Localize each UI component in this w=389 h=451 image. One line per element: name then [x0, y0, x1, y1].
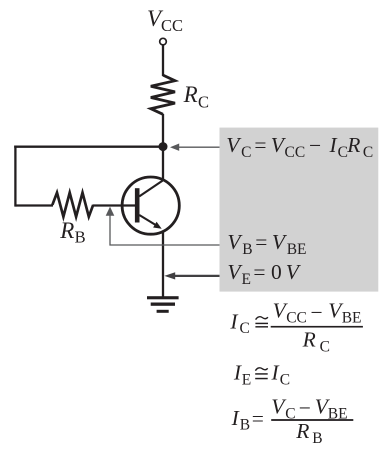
- transistor Q1: [122, 177, 179, 234]
- svg-text:CC: CC: [161, 16, 183, 35]
- node collector junction: [159, 142, 168, 151]
- svg-text:I: I: [329, 133, 338, 157]
- wire left to RB: [15, 204, 53, 206]
- svg-text:B: B: [75, 228, 86, 247]
- svg-text:BE: BE: [342, 310, 362, 327]
- equation VB = VBE: [227, 230, 306, 258]
- annotation arrow VB: [106, 207, 220, 245]
- resistor RC: [151, 75, 175, 114]
- svg-text:B: B: [242, 241, 252, 258]
- wire VCC terminal to RC: [162, 45, 164, 76]
- svg-text:B: B: [312, 430, 322, 447]
- resistor RB: [52, 193, 93, 217]
- equation IC approx (VCC-VBE)/RC: [229, 299, 363, 356]
- power terminal VCC: [160, 38, 167, 45]
- svg-text:−: −: [309, 134, 321, 158]
- annotation arrow VC: [170, 144, 220, 151]
- svg-text:0: 0: [271, 260, 282, 284]
- svg-text:C: C: [320, 339, 330, 356]
- wire RB to base: [93, 204, 136, 206]
- svg-text:R: R: [302, 328, 316, 352]
- equation IE approx IC: [233, 360, 290, 388]
- wire feedback left: [14, 146, 16, 207]
- label VCC: [147, 6, 183, 35]
- svg-text:R: R: [346, 133, 360, 157]
- annotation arrow VE: [164, 272, 219, 279]
- equation IB = (VC-VBE)/RB: [231, 394, 354, 447]
- svg-text:=: =: [255, 230, 267, 254]
- svg-text:C: C: [240, 320, 250, 337]
- equation VC = VCC - ICRC: [226, 133, 373, 161]
- wire feedback top: [14, 146, 163, 148]
- svg-text:C: C: [241, 144, 251, 161]
- congruent symbol of IC equation: [256, 317, 268, 320]
- svg-text:CC: CC: [285, 144, 306, 161]
- svg-text:I: I: [231, 406, 240, 430]
- svg-text:C: C: [363, 144, 373, 161]
- svg-text:I: I: [271, 360, 280, 384]
- fraction bar of IC equation: [271, 326, 363, 328]
- svg-text:I: I: [229, 309, 238, 333]
- svg-text:E: E: [242, 371, 251, 388]
- svg-text:BE: BE: [287, 241, 307, 258]
- wire emitter to ground: [162, 231, 164, 297]
- equation VE = 0 V: [227, 260, 301, 288]
- svg-text:R: R: [295, 419, 309, 443]
- svg-text:C: C: [198, 93, 209, 112]
- fraction bar of IB equation: [271, 419, 353, 421]
- svg-text:R: R: [183, 82, 198, 107]
- svg-text:CC: CC: [286, 310, 307, 327]
- shaded annotation box: [220, 128, 379, 292]
- label RB: [59, 218, 85, 247]
- label RC: [183, 82, 209, 112]
- svg-text:C: C: [280, 371, 290, 388]
- svg-text:=: =: [252, 407, 264, 431]
- svg-text:R: R: [59, 218, 74, 243]
- svg-text:E: E: [242, 271, 251, 288]
- svg-text:I: I: [233, 360, 242, 384]
- wire RC to collector node: [162, 114, 164, 181]
- svg-text:−: −: [299, 396, 311, 420]
- congruent symbol of IE equation: [255, 368, 267, 371]
- svg-text:=: =: [253, 260, 265, 284]
- svg-text:=: =: [254, 133, 266, 157]
- ground: [147, 296, 179, 313]
- svg-text:−: −: [311, 300, 323, 324]
- svg-text:B: B: [240, 417, 250, 434]
